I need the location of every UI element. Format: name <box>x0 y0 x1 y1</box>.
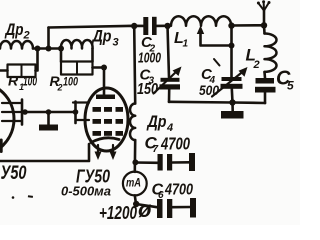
svg-text:100: 100 <box>63 75 78 89</box>
svg-text:3: 3 <box>113 37 119 49</box>
svg-text:R: R <box>8 73 19 89</box>
svg-text:1000: 1000 <box>138 50 161 67</box>
svg-text:+1200: +1200 <box>99 203 137 223</box>
svg-text:2: 2 <box>23 30 30 42</box>
svg-text:4: 4 <box>166 122 173 134</box>
svg-text:2: 2 <box>57 83 63 93</box>
svg-text:4700: 4700 <box>160 134 190 154</box>
svg-text:7: 7 <box>153 144 159 155</box>
svg-text:100: 100 <box>23 75 37 89</box>
svg-text:Др: Др <box>4 20 24 39</box>
svg-text:0-500ма: 0-500ма <box>61 184 111 199</box>
svg-text:тА: тА <box>126 176 141 190</box>
svg-text:1: 1 <box>183 39 189 50</box>
svg-text:Др: Др <box>91 27 112 46</box>
svg-text:2: 2 <box>253 59 260 71</box>
svg-text:5: 5 <box>287 79 294 93</box>
svg-text:6: 6 <box>158 190 164 201</box>
svg-text:150: 150 <box>137 81 158 98</box>
svg-text:У50: У50 <box>1 163 27 184</box>
svg-text:4700: 4700 <box>164 182 193 199</box>
svg-text:ø: ø <box>138 197 152 222</box>
svg-text:Др: Др <box>146 112 167 131</box>
svg-text:500: 500 <box>199 83 219 98</box>
